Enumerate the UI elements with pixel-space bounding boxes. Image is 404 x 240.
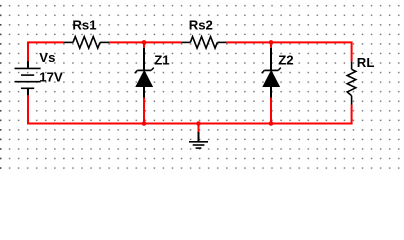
zener diode Z2: [262, 48, 281, 98]
svg-text:17V: 17V: [39, 70, 63, 85]
junction: node A (Rs1/Rs2/Z1): [142, 40, 147, 45]
wire: ground stub: [198, 124, 200, 133]
svg-text:Rs1: Rs1: [72, 17, 96, 32]
wire: Z1 top stub: [143, 42, 145, 47]
wire: Rs1 to Rs2 (top rail, through node A): [109, 41, 181, 43]
wire: Z1 bottom stub: [143, 97, 145, 124]
wire: Z2 top stub: [270, 42, 272, 47]
wire: battery Vs bottom to bottom rail: [27, 95, 29, 125]
svg-text:Z2: Z2: [278, 52, 293, 67]
junction: Z1 anode at bottom rail: [142, 121, 147, 126]
zener diode Z1: [135, 48, 154, 98]
junction: ground at bottom rail: [196, 121, 201, 126]
svg-text:RL: RL: [357, 55, 375, 70]
svg-text:Z1: Z1: [154, 52, 169, 67]
wire: Z2 bottom stub: [270, 97, 272, 124]
wire: battery Vs top to Rs1 (top-left corner): [28, 42, 64, 61]
ground: [189, 132, 208, 148]
svg-text:Rs2: Rs2: [189, 17, 213, 32]
resistor Rs2: [181, 37, 226, 49]
resistor Rs1: [64, 37, 109, 49]
wire: Rs2 to RL (top rail right, through node B, top-right corner): [226, 42, 351, 61]
resistor RL: [347, 61, 356, 104]
junction: Z2 anode at bottom rail: [269, 121, 274, 126]
battery Vs (DC source, 17V): [15, 61, 41, 95]
svg-text:Vs: Vs: [39, 50, 55, 65]
junction: node B (Rs2/RL/Z2): [269, 40, 274, 45]
wire: RL bottom to bottom rail (bottom-right corner): [28, 105, 352, 124]
